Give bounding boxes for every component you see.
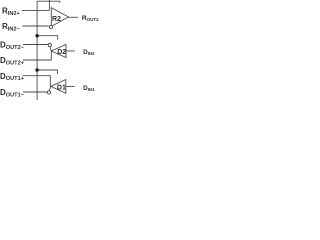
wire pin ROUT2 (69, 16, 78, 18)
svg-text:D2: D2 (57, 49, 66, 56)
svg-text:D1: D1 (57, 85, 66, 92)
driver D2 (51, 45, 66, 58)
wire DOUT1- bubble tail to D1 apex (49, 87, 51, 91)
wire pin DIN2 (66, 50, 75, 52)
wire enable-bus vertical (36, 1, 38, 100)
wire D1 enable from junction (37, 70, 57, 74)
wire pin RIN2+ (22, 9, 50, 11)
wire pin RIN2- (22, 25, 48, 27)
receiver R2 (51, 8, 68, 27)
junction dot D1 enable (35, 68, 39, 72)
svg-text:DIN2: DIN2 (83, 49, 95, 56)
junction dot D2 enable (35, 34, 39, 38)
wire pin DOUT1- (23, 91, 47, 93)
wire enable-bus top hook stub (59, 1, 61, 3)
wire pin DIN1 (66, 85, 75, 87)
wire pin DOUT2- (23, 44, 48, 46)
driver D1 (51, 80, 66, 94)
wire pin DOUT1+ (23, 76, 50, 87)
svg-text:ROUT2: ROUT2 (82, 15, 99, 22)
wire pin DOUT2+ (23, 51, 51, 60)
bubble DOUT2- output (48, 44, 51, 47)
bubble DOUT1- output (47, 91, 50, 94)
bubble RIN2- input (49, 25, 52, 28)
wire RIN2+ vertical to top edge (cut) (48, 0, 50, 10)
svg-text:R2: R2 (52, 16, 61, 23)
svg-text:DIN1: DIN1 (83, 85, 95, 92)
wire D2 enable from junction (37, 36, 58, 40)
wire DOUT2- bubble tail to D2 apex (50, 47, 51, 51)
wire enable-bus top horizontal (37, 0, 60, 2)
